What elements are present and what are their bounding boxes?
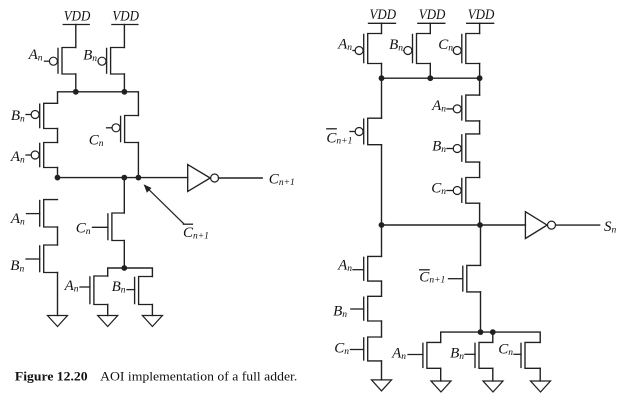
label Cbar(n+1) (gate of M21) [419,269,445,285]
ground (below M10) [142,316,162,327]
transistor M9 NMOS gate An [64,276,108,305]
node N4 junction at M13 drain [477,75,483,81]
transistor M11 PMOS gate An [337,34,381,64]
wire M14 drain to node Sbar [381,145,383,225]
label Cbar(n+1) (gate of M14) [326,129,352,147]
wire M16 drain to M17 source [479,162,481,177]
node Sbar junction left [379,222,385,228]
ground (below M23) [483,381,503,392]
transistor M24 NMOS gate Cn [498,342,540,369]
transistor M18 NMOS gate An [337,256,381,281]
transistor M10 NMOS gate Bn [112,277,153,305]
wire M3 drain to M4 source [57,129,59,143]
wire node N5 net (M21 source to parallel M22/M23/M24 drains) [441,332,541,342]
transistor M14 PMOS gate Cbar(n+1) [350,118,382,145]
wire M23 source to ground [492,368,494,381]
op-amp U2 inverter (sum output) [525,212,555,239]
svg-text:AOI implementation of a full a: AOI implementation of a full adder. [100,370,297,384]
wire VDD to M11 source [381,23,383,33]
op-amp U1 inverter (carry output) [188,165,219,192]
wire M15 drain to M16 source [479,121,481,134]
wire node N3 net (M8 source to parallel M9/M10 drains) [108,268,153,277]
wire node Sbar to M21 drain [480,225,482,265]
wire node N4 net (parallel PMOS drains) [382,64,480,79]
node N1 junction at M1 drain [73,89,79,95]
transistor M12 PMOS gate Bn [389,34,430,64]
node N4 junction at M11 drain [379,75,385,81]
wire node N4 to M15 source [479,78,481,95]
wire inverter U2 output to Sn terminal [556,224,600,226]
label Cn (gate of M5) [89,133,104,149]
power rail VDD (left circuit, second) [112,9,139,25]
wire VDD to M1 source [75,25,77,48]
wire M5 drain to node Cbar [137,143,139,178]
power rail VDD (right circuit, third) [467,7,495,23]
transistor M13 PMOS gate Cn [438,34,479,64]
wire node N4 to M14 source [381,78,383,118]
node N5 junction at M21 source [478,329,484,335]
svg-text:Figure 12.20: Figure 12.20 [15,370,88,384]
wire node Sbar to M18 drain [381,225,383,256]
arrow pointing to node Cbar(n+1) [144,184,184,224]
wire VDD to M12 source [429,23,431,33]
power rail VDD (right circuit, first) [369,7,397,23]
transistor M20 NMOS gate Cn [334,337,381,361]
label Sn (sum output) [604,219,617,235]
transistor M7 NMOS gate Bn [10,245,57,274]
ground (below M22) [431,381,451,392]
wire VDD to M13 source [479,23,481,33]
transistor M2 PMOS gate Bn [83,48,124,75]
wire M24 source to ground [539,368,541,381]
wire M21 source to node N5 [480,292,482,332]
transistor M4 PMOS gate An [10,143,58,168]
transistor M15 PMOS gate An [431,95,480,121]
power rail VDD (left circuit, first) [63,9,90,25]
wire M4 drain to node Cbar [57,168,59,178]
node N4 junction at M12 drain [427,75,433,81]
svg-text:VDD: VDD [112,9,139,25]
wire M22 source to ground [440,368,442,381]
wire M19 source to M20 drain [381,321,383,337]
ground (below M20) [372,380,392,391]
wire node Cbar to M8 drain [123,178,125,213]
ground (below M9) [98,316,118,327]
node Cbar junction at M8 drain [121,175,127,181]
wire M20 source to ground [381,361,383,380]
transistor M8 NMOS gate Cn [76,213,125,241]
label Cbar(n+1) (node name with overbar) [183,224,209,241]
wire node Sbar net (AOI output to inverter input) [382,224,526,226]
wire M17 drain to node Sbar [479,203,481,225]
power rail VDD (right circuit, second) [418,7,446,23]
wire node N1 net (M1/M2 drains to series pull-up branches) [58,74,139,116]
caption figure number [15,370,88,384]
transistor M1 PMOS gate An [28,47,76,74]
wire M9 source to ground [107,305,109,316]
wire M8 source to node N3 [123,241,125,269]
transistor M17 PMOS gate Cn [431,178,479,204]
svg-text:VDD: VDD [64,9,91,25]
svg-text:VDD: VDD [370,7,397,23]
transistor M22 NMOS gate An [391,342,441,368]
wire M6 source to M7 drain [57,227,59,245]
node N5 junction at M23 drain [490,329,496,335]
node N3 junction at M8 source [121,265,127,271]
transistor M21 NMOS gate Cbar(n+1) [449,265,481,292]
node N1 junction at M2 drain [122,89,128,95]
wire M18 source to M19 drain [381,281,383,296]
transistor M5 PMOS gate Cn [107,116,139,143]
ground (below M7) [48,316,68,327]
transistor M6 NMOS gate An [10,200,58,228]
wire inverter U1 output to Cn+1 terminal [218,177,262,179]
transistor M16 PMOS gate Bn [432,134,480,162]
svg-text:VDD: VDD [468,7,495,23]
wire VDD to M2 source [123,25,125,48]
transistor M19 NMOS gate Bn [333,296,381,321]
wire node Cbar(n+1) net (output of AOI gate to inverter input) [58,177,188,179]
caption text [100,370,297,384]
wire M7 source to ground [57,273,59,316]
label Cn+1 (carry output) [269,172,295,188]
node Cbar junction left [55,175,61,181]
svg-text:VDD: VDD [419,7,446,23]
node Cbar junction at M5 drain [136,175,142,181]
node Sbar junction at M17 drain [477,222,483,228]
ground (below M24) [531,381,551,392]
transistor M23 NMOS gate Bn [450,342,493,368]
wire M10 source to ground [151,305,153,316]
transistor M3 PMOS gate Bn [11,103,58,128]
